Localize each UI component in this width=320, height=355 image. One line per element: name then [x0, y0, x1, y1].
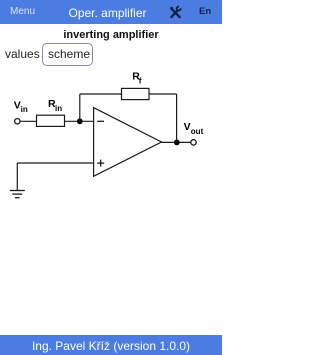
bottom bar — [0, 335, 222, 355]
svg-text:in: in — [21, 105, 28, 114]
wire down to ground — [16, 163, 18, 191]
menu button — [10, 6, 35, 17]
label V_in — [14, 100, 28, 114]
terminal V_out — [191, 140, 196, 145]
terminal V_in — [15, 119, 20, 124]
language button En — [199, 6, 211, 17]
wire non-inverting input to left — [17, 162, 93, 164]
tab values — [5, 47, 40, 61]
wire op-amp output — [162, 141, 191, 143]
svg-text:f: f — [139, 76, 142, 85]
wire node A up to feedback — [79, 94, 81, 121]
op-amp U1 — [94, 108, 162, 177]
app title — [0, 6, 215, 20]
output node junction dot — [174, 140, 180, 146]
top app bar — [0, 0, 222, 24]
label V_out — [184, 121, 204, 136]
label Rf — [132, 70, 142, 85]
tools icon — [0, 0, 222, 24]
resistor Rin — [37, 115, 65, 126]
label Rin — [48, 98, 62, 113]
page heading — [0, 29, 222, 41]
circuit schematic — [0, 0, 222, 330]
tab scheme (selected) — [42, 43, 94, 66]
wire Rin to op-amp inverting input — [65, 120, 94, 122]
svg-text:V: V — [184, 121, 191, 133]
wire feedback down to output node — [176, 94, 178, 142]
svg-text:out: out — [191, 127, 204, 136]
svg-text:in: in — [55, 104, 62, 113]
resistor Rf — [122, 88, 150, 99]
ground — [10, 191, 25, 198]
credit text — [0, 339, 222, 353]
wire feedback top left — [80, 93, 122, 95]
wire feedback top right — [149, 93, 177, 95]
node A junction dot — [77, 118, 83, 124]
wire Vin to Rin — [20, 120, 37, 122]
op-amp plus sign — [97, 160, 104, 167]
op-amp minus sign — [97, 120, 104, 122]
